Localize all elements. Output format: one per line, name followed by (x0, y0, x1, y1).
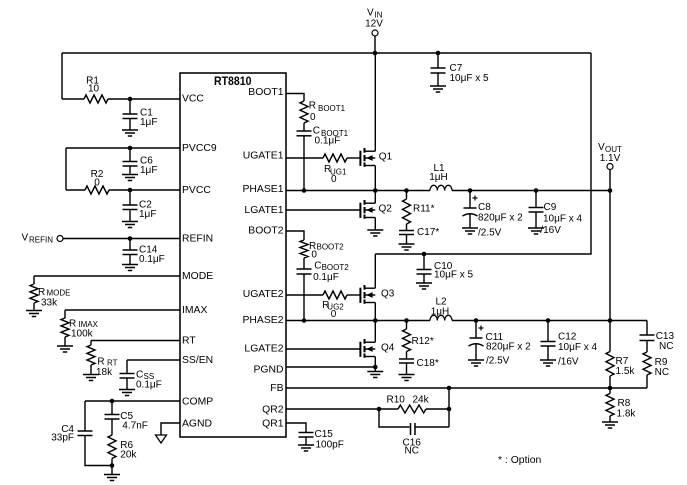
svg-text:UGATE2: UGATE2 (243, 289, 284, 300)
svg-text:UGATE1: UGATE1 (243, 150, 284, 161)
svg-text:MODE: MODE (182, 271, 213, 282)
svg-text:QR2: QR2 (262, 404, 284, 415)
svg-text:REFIN: REFIN (29, 236, 53, 245)
svg-text:LGATE1: LGATE1 (244, 205, 283, 216)
svg-text:0: 0 (310, 112, 316, 123)
svg-text:SS/EN: SS/EN (182, 355, 213, 366)
svg-text:LGATE2: LGATE2 (244, 344, 283, 355)
svg-text:AGND: AGND (182, 419, 212, 430)
svg-text:BOOT2: BOOT2 (248, 225, 283, 236)
svg-text:C18*: C18* (417, 358, 439, 369)
svg-text:PHASE2: PHASE2 (242, 315, 283, 326)
svg-text:RT8810: RT8810 (214, 74, 252, 88)
svg-text:V: V (598, 142, 605, 153)
svg-text:4.7nF: 4.7nF (122, 421, 148, 432)
svg-text:MODE: MODE (47, 289, 71, 298)
svg-text:BOOT1: BOOT1 (318, 104, 346, 113)
svg-text:1μF: 1μF (140, 117, 157, 128)
svg-text:0.1μF: 0.1μF (136, 380, 162, 391)
svg-text:1μF: 1μF (140, 165, 157, 176)
svg-text:FB: FB (270, 383, 283, 394)
svg-text:R11*: R11* (413, 204, 435, 215)
svg-text:BOOT2: BOOT2 (322, 263, 350, 272)
svg-text:10μF x 5: 10μF x 5 (434, 270, 474, 281)
svg-text:BOOT1: BOOT1 (248, 87, 283, 98)
svg-text:PGND: PGND (253, 364, 283, 375)
svg-text:Q3: Q3 (381, 289, 395, 300)
svg-text:RT: RT (182, 336, 196, 347)
svg-text:/16V: /16V (540, 225, 561, 236)
svg-text:0.1μF: 0.1μF (313, 272, 339, 283)
svg-text:C12: C12 (558, 332, 577, 343)
svg-text:NC: NC (655, 367, 669, 378)
svg-text:1.5k: 1.5k (616, 366, 636, 377)
svg-text:R8: R8 (618, 398, 631, 409)
svg-text:1.8k: 1.8k (617, 409, 637, 420)
svg-text:NC: NC (405, 446, 419, 457)
svg-text:0: 0 (94, 178, 100, 189)
svg-text:33pF: 33pF (51, 433, 74, 444)
svg-text:0.1μF: 0.1μF (139, 254, 165, 265)
svg-text:1μF: 1μF (139, 209, 156, 220)
svg-text:Q1: Q1 (379, 152, 393, 163)
svg-text:V: V (367, 8, 374, 19)
svg-text:820μF x 2: 820μF x 2 (478, 213, 523, 224)
svg-text:Q4: Q4 (381, 343, 395, 354)
svg-text:0: 0 (331, 174, 337, 185)
svg-text:QR1: QR1 (262, 418, 284, 429)
svg-text:V: V (22, 233, 29, 244)
svg-text:/2.5V: /2.5V (486, 356, 510, 367)
svg-text:IMAX: IMAX (182, 305, 207, 316)
svg-text:100k: 100k (71, 329, 94, 340)
svg-text:100pF: 100pF (316, 440, 344, 451)
svg-text:C9: C9 (544, 202, 557, 213)
svg-text:COMP: COMP (182, 396, 213, 407)
svg-text:20k: 20k (120, 449, 137, 460)
svg-text:0.1μF: 0.1μF (315, 136, 341, 147)
svg-text:Q2: Q2 (379, 204, 393, 215)
svg-text:33k: 33k (41, 298, 58, 309)
svg-text:18k: 18k (96, 367, 113, 378)
svg-text:1.1V: 1.1V (600, 153, 621, 164)
svg-text:C17*: C17* (417, 227, 439, 238)
svg-text:C: C (314, 260, 321, 271)
svg-text:VCC: VCC (182, 94, 204, 105)
svg-text:BOOT2: BOOT2 (317, 243, 345, 252)
svg-text:0: 0 (311, 250, 317, 261)
svg-text:10μF x 5: 10μF x 5 (450, 73, 490, 84)
svg-text:PVCC: PVCC (182, 185, 211, 196)
svg-text:1μH: 1μH (431, 307, 450, 318)
svg-text:/2.5V: /2.5V (478, 228, 502, 239)
svg-text:PHASE1: PHASE1 (242, 184, 283, 195)
svg-text:1μH: 1μH (429, 172, 448, 183)
svg-text:/16V: /16V (558, 357, 579, 368)
svg-text:10μF x 4: 10μF x 4 (558, 342, 598, 353)
svg-text:R: R (309, 101, 316, 112)
svg-text:10μF x 4: 10μF x 4 (543, 214, 583, 225)
svg-text:PVCC9: PVCC9 (182, 143, 217, 154)
svg-text:NC: NC (659, 341, 673, 352)
svg-text:24k: 24k (413, 395, 430, 406)
svg-text:REFIN: REFIN (182, 234, 213, 245)
svg-text:C15: C15 (315, 429, 334, 440)
svg-text:0: 0 (331, 309, 337, 320)
svg-text:10: 10 (88, 84, 100, 95)
svg-text:R: R (38, 287, 45, 298)
svg-text:R: R (97, 356, 104, 367)
svg-text:R12*: R12* (412, 336, 434, 347)
svg-text:12V: 12V (365, 19, 383, 30)
svg-text:* : Option: * : Option (498, 455, 542, 466)
svg-text:C8: C8 (478, 202, 491, 213)
svg-text:R10: R10 (387, 395, 406, 406)
svg-text:820μF x 2: 820μF x 2 (486, 342, 531, 353)
